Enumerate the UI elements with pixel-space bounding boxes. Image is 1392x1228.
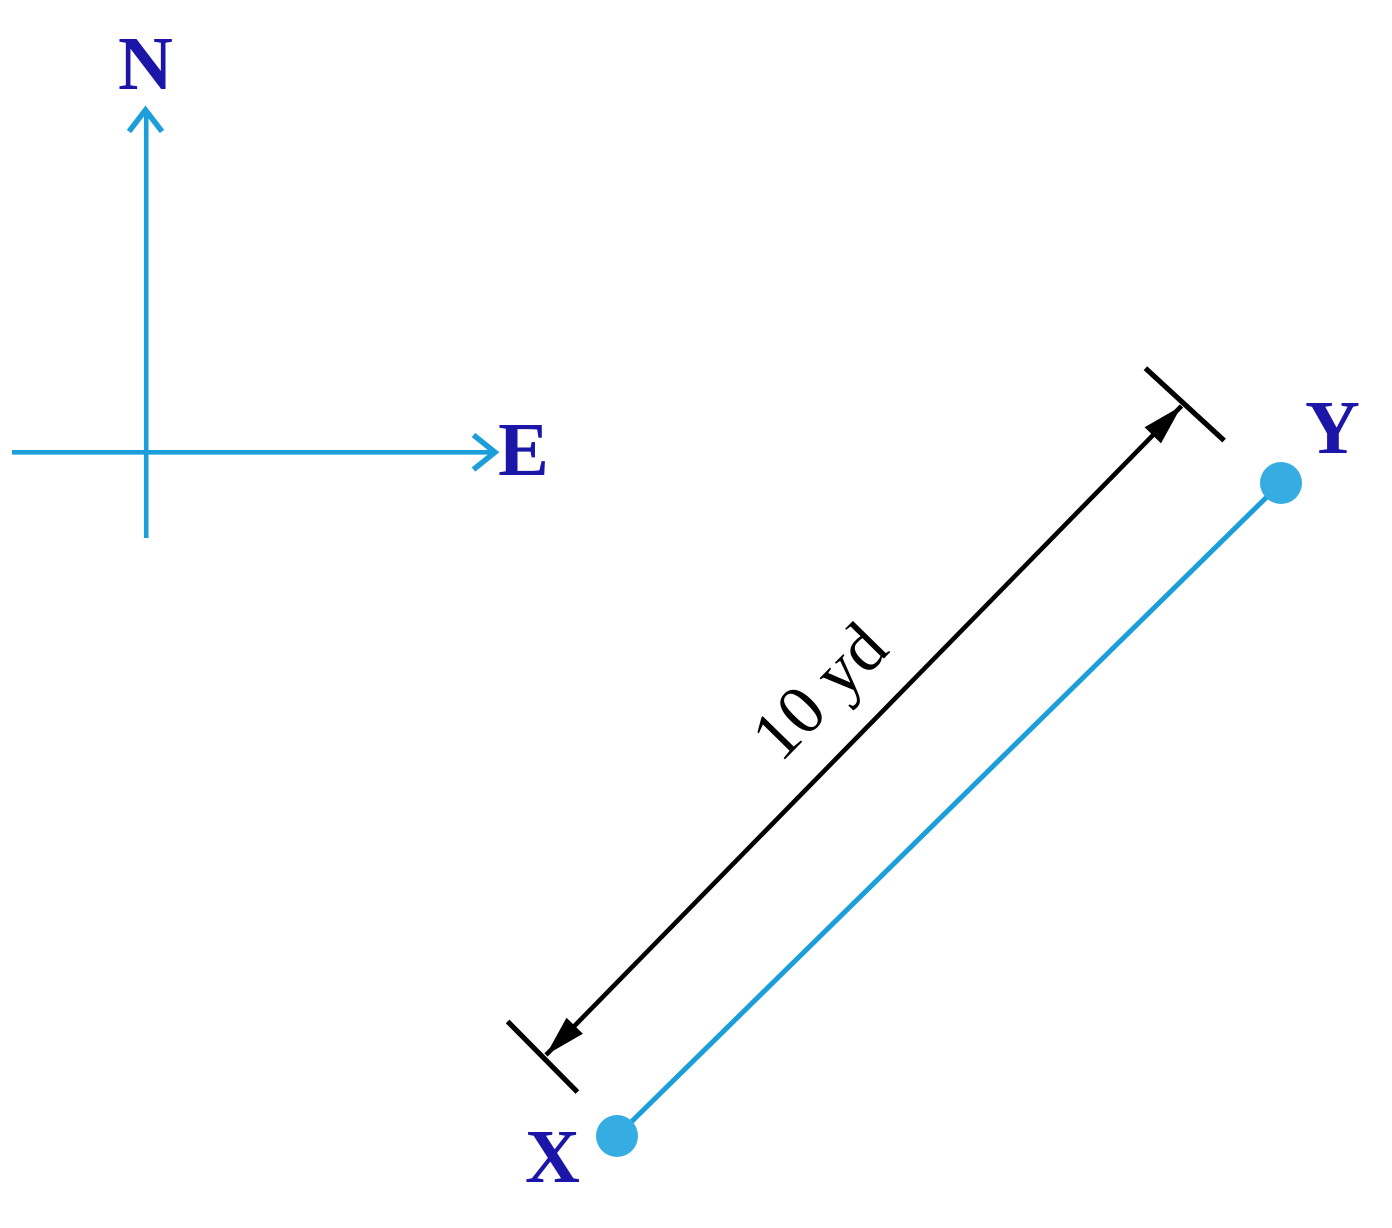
- dimension tick top: [1145, 368, 1224, 440]
- compass east axis: [12, 450, 494, 455]
- svg-text:X: X: [525, 1115, 580, 1199]
- dimension arrowhead top: [1145, 406, 1182, 443]
- point Y: [1260, 462, 1302, 504]
- compass east arrowhead: [474, 435, 496, 470]
- svg-text:E: E: [498, 408, 549, 492]
- point X: [596, 1115, 638, 1157]
- compass north arrowhead: [129, 110, 162, 132]
- dimension line: [546, 406, 1182, 1055]
- segment XY: [617, 483, 1281, 1136]
- svg-text:N: N: [118, 22, 173, 106]
- svg-text:Y: Y: [1305, 386, 1360, 470]
- dimension arrowhead bottom: [546, 1018, 583, 1055]
- svg-text:10 yd: 10 yd: [737, 609, 902, 775]
- dimension tick bottom: [508, 1021, 578, 1092]
- compass north axis: [144, 111, 149, 538]
